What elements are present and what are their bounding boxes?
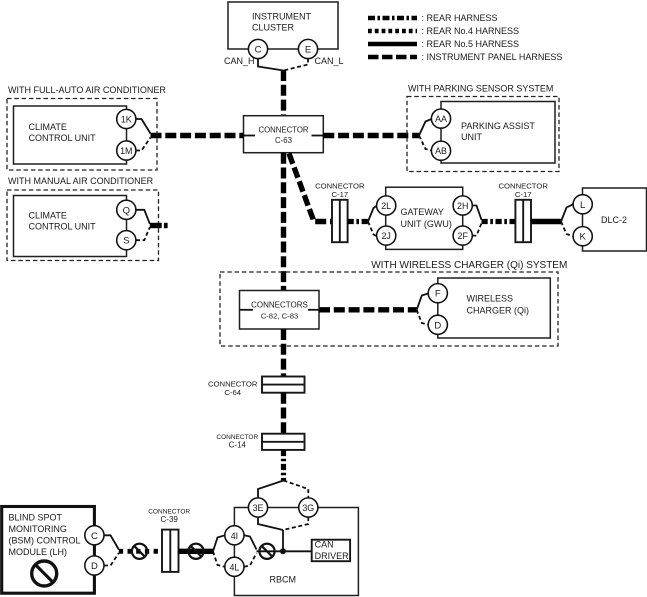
svg-text:CONNECTOR: CONNECTOR <box>315 181 365 190</box>
svg-text:CAN_H: CAN_H <box>224 56 255 66</box>
legend line INSTRUMENT PANEL HARNESS <box>368 52 562 62</box>
wire merge to pin F <box>417 293 429 309</box>
svg-text:CONNECTORS: CONNECTORS <box>251 300 308 309</box>
pin L <box>573 195 592 214</box>
no-connection symbol (after C-39) <box>188 544 203 559</box>
svg-text:: INSTRUMENT PANEL HARNESS: : INSTRUMENT PANEL HARNESS <box>422 52 563 62</box>
wire junction vertical <box>282 530 284 551</box>
instrument cluster box <box>228 2 338 49</box>
svg-text:L: L <box>580 200 585 211</box>
svg-text:UNIT: UNIT <box>461 132 482 142</box>
wire stub inside C-63 right <box>312 135 324 137</box>
wire trunk C-63 to C-82/83 <box>281 153 286 291</box>
parking assist unit box <box>441 102 555 164</box>
svg-text:CONNECTOR: CONNECTOR <box>258 126 308 135</box>
svg-text:2H: 2H <box>457 201 468 211</box>
wire pin S to merge (dashed) <box>136 227 150 240</box>
pin C <box>248 39 267 58</box>
svg-text:4L: 4L <box>229 562 239 572</box>
svg-text:CHARGER (Qi): CHARGER (Qi) <box>467 306 530 316</box>
legend line REAR HARNESS <box>368 13 498 23</box>
svg-text:2F: 2F <box>458 231 469 241</box>
wire split to pin 4I <box>213 535 225 551</box>
wire CAN_L from pin E (dashed) <box>284 59 309 71</box>
svg-text:D: D <box>91 561 98 572</box>
wire harness C-63 to parking <box>323 133 419 138</box>
svg-text:C: C <box>255 45 262 56</box>
svg-text:3G: 3G <box>302 503 314 513</box>
svg-text:C-82, C-83: C-82, C-83 <box>261 311 299 320</box>
pin 2H <box>453 196 472 215</box>
svg-text:3E: 3E <box>253 503 264 513</box>
svg-text:CONTROL UNIT: CONTROL UNIT <box>29 133 97 143</box>
pin 2L <box>377 196 396 215</box>
wire rear harness C-14 down <box>281 450 286 481</box>
svg-text:DLC-2: DLC-2 <box>601 215 627 225</box>
svg-text:GATEWAY: GATEWAY <box>401 207 444 217</box>
pin D <box>428 315 447 334</box>
RBCM box <box>234 508 358 596</box>
wire harness full-auto AC to C-63 <box>151 133 244 138</box>
wire pin 1K to merge <box>136 119 151 134</box>
wire merge to pin AB (dashed) <box>419 136 432 151</box>
pin 3E <box>248 498 267 517</box>
svg-text:CAN_L: CAN_L <box>315 56 344 66</box>
svg-text:C-64: C-64 <box>224 388 241 397</box>
svg-text:DRIVER: DRIVER <box>315 551 350 561</box>
svg-text:CLIMATE: CLIMATE <box>29 122 67 132</box>
wire instrument panel harness trunk (cluster to C-63) <box>281 70 286 116</box>
wire trunk C-82/83 to C-64 <box>281 329 286 377</box>
wire harness C-82/83 to wireless charger <box>319 307 417 312</box>
svg-text:AB: AB <box>435 146 447 156</box>
pin E <box>298 39 317 58</box>
wire stub inside C-82/83 right <box>308 309 319 311</box>
pin 2F <box>453 226 472 245</box>
wire stub inside C-63 left <box>244 135 256 137</box>
wire merge to pin 2L <box>368 206 377 222</box>
svg-text:2J: 2J <box>382 231 391 241</box>
svg-text:C-63: C-63 <box>275 136 292 145</box>
svg-text:PARKING ASSIST: PARKING ASSIST <box>461 121 535 131</box>
svg-text:MONITORING: MONITORING <box>9 524 67 534</box>
full-auto AC enclosure <box>7 85 166 170</box>
CAN driver box <box>312 540 350 562</box>
svg-text:WITH PARKING SENSOR SYSTEM: WITH PARKING SENSOR SYSTEM <box>408 84 553 94</box>
svg-text:WIRELESS: WIRELESS <box>467 294 514 304</box>
wire harness stub (manual AC) <box>150 223 162 228</box>
pin D (BSM) <box>85 556 104 575</box>
svg-text:2L: 2L <box>381 201 391 211</box>
wire split to pin 4L (dashed) <box>213 551 225 567</box>
wire stub inside C-82/83 left <box>240 309 254 311</box>
wire CAN_H from pin C <box>258 59 284 71</box>
svg-text:WITH WIRELESS CHARGER (Qi) SYS: WITH WIRELESS CHARGER (Qi) SYSTEM <box>371 260 567 271</box>
wire split to pin 3E <box>258 481 284 498</box>
wire pin 4L to right merge (dashed) <box>244 553 257 567</box>
pin 3G <box>299 498 318 517</box>
svg-text:CLIMATE: CLIMATE <box>29 211 67 221</box>
no-connection symbol right of 4I/4L <box>259 544 274 559</box>
wire rear harness C-17 to gateway <box>348 219 368 224</box>
svg-text:E: E <box>305 45 311 56</box>
svg-text:C-39: C-39 <box>161 515 179 524</box>
wire merge to pin AA <box>419 119 432 136</box>
wire split to pin 3G (dashed) <box>284 481 309 498</box>
svg-text:C: C <box>91 531 98 542</box>
pin 4I <box>225 526 244 545</box>
wire harness diagonal C-63 to connector C-17 <box>289 154 332 222</box>
svg-text:: REAR No.4 HARNESS: : REAR No.4 HARNESS <box>422 26 520 36</box>
pin 2J <box>377 226 396 245</box>
pin 1M <box>117 141 136 160</box>
svg-text:K: K <box>580 232 587 243</box>
parking sensor enclosure <box>407 84 559 172</box>
svg-text:: REAR HARNESS: : REAR HARNESS <box>422 13 498 23</box>
wire rear No.5 harness C-17 to DLC-2 <box>531 219 561 224</box>
pin 4L <box>225 557 244 576</box>
pin K <box>573 227 592 246</box>
wire merge to pin L <box>561 204 573 221</box>
pin C (BSM) <box>85 526 104 545</box>
svg-text:S: S <box>123 236 129 247</box>
connector C-64 <box>208 377 305 397</box>
pin AB <box>431 141 450 160</box>
pin 1K <box>117 109 136 128</box>
climate control unit box (full-auto) <box>14 106 127 164</box>
svg-text:RBCM: RBCM <box>270 574 297 584</box>
svg-text:1M: 1M <box>120 146 132 156</box>
svg-text:WITH MANUAL AIR CONDITIONER: WITH MANUAL AIR CONDITIONER <box>8 176 154 186</box>
wireless charger box <box>438 278 551 338</box>
svg-text:BLIND SPOT: BLIND SPOT <box>9 513 63 523</box>
BSM control module box <box>2 507 95 594</box>
connector C-63 box <box>244 116 324 153</box>
wire junction to CAN driver <box>283 550 312 552</box>
pin AA <box>431 109 450 128</box>
svg-text:WITH FULL-AUTO AIR CONDITIONER: WITH FULL-AUTO AIR CONDITIONER <box>8 85 166 95</box>
wire merge to pin D (dashed) <box>417 310 429 325</box>
svg-text:C-14: C-14 <box>229 441 247 450</box>
gateway unit box <box>386 187 463 249</box>
svg-text:AA: AA <box>435 114 447 124</box>
wire pin C(BSM) to merge <box>104 535 119 549</box>
svg-text:MODULE (LH): MODULE (LH) <box>9 547 68 557</box>
pin Q <box>117 200 136 219</box>
wire rear harness gateway to C-17 right <box>482 219 515 224</box>
wire merge to junction dot <box>257 550 284 552</box>
svg-text:4I: 4I <box>231 531 238 541</box>
svg-text:C-17: C-17 <box>515 190 532 199</box>
svg-text:F: F <box>435 289 441 300</box>
wire pin 2F to merge (dashed) <box>472 223 481 235</box>
svg-text:D: D <box>434 320 441 331</box>
connector C-39 <box>148 508 190 572</box>
wire rear No.4 harness BSM to C-39 <box>119 549 162 554</box>
legend line REAR No.5 HARNESS <box>368 39 519 49</box>
wire pin 3G down to junction (dashed) <box>283 517 308 530</box>
svg-text:INSTRUMENT: INSTRUMENT <box>252 12 311 22</box>
svg-text:Q: Q <box>123 205 130 216</box>
wire pin Q to merge <box>136 210 150 224</box>
svg-text:CAN: CAN <box>315 540 334 550</box>
svg-text:(BSM) CONTROL: (BSM) CONTROL <box>9 536 81 546</box>
connector C-17 (left) <box>315 181 365 242</box>
wire pin 3E down to junction <box>258 517 283 530</box>
climate control unit box (manual) <box>14 196 127 257</box>
wire trunk C-64 to C-14 <box>281 393 286 434</box>
wire merge to pin 2J (dashed) <box>368 222 377 237</box>
pin S <box>117 231 136 250</box>
wire pin 4I to right merge <box>244 535 257 549</box>
manual AC enclosure <box>7 176 159 261</box>
svg-text:CONNECTOR: CONNECTOR <box>498 181 548 190</box>
svg-text:CLUSTER: CLUSTER <box>252 23 295 33</box>
wire rear No.5 harness C-39 to RBCM <box>179 549 214 554</box>
svg-text:C-17: C-17 <box>331 190 348 199</box>
svg-text:CONTROL UNIT: CONTROL UNIT <box>29 221 97 231</box>
no-connection symbol (BSM, large) <box>32 561 57 586</box>
wire pin 1M to merge (dashed) <box>136 138 151 151</box>
no-connection symbol (before C-39) <box>132 544 147 559</box>
legend line REAR No.4 HARNESS <box>368 26 519 36</box>
DLC-2 box <box>583 188 647 251</box>
connectors C-82, C-83 box <box>240 291 320 330</box>
svg-text:: REAR No.5 HARNESS: : REAR No.5 HARNESS <box>422 39 520 49</box>
junction dot <box>280 548 286 554</box>
wire merge to pin K (dashed) <box>561 222 573 237</box>
pin F <box>428 284 447 303</box>
wireless charger enclosure <box>220 260 567 346</box>
connector C-14 <box>216 434 304 450</box>
svg-text:1K: 1K <box>121 115 132 125</box>
wire pin D(BSM) to merge (dashed) <box>104 553 119 566</box>
connector C-17 (right) <box>498 181 548 242</box>
wire pin 2H to merge <box>472 206 481 220</box>
svg-text:UNIT (GWU): UNIT (GWU) <box>401 219 452 229</box>
